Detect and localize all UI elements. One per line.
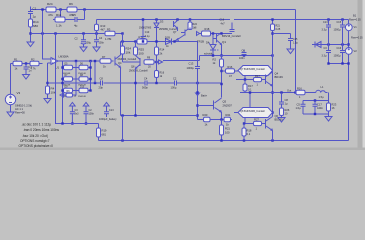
wire rail y19 mid (65, 19, 75, 21)
wire L1 corner down (328, 93, 330, 101)
capacitor C2 100u (175, 81, 177, 86)
svg-text:D4: D4 (206, 41, 210, 45)
voltage source V2 (345, 48, 352, 55)
capacitor C12 (279, 102, 284, 104)
wire R18a bottom (244, 91, 246, 93)
svg-text:OPTIONS numdgt=7: OPTIONS numdgt=7 (20, 139, 50, 143)
wire y83 bus (48, 82, 222, 84)
wire y119 rail (198, 119, 233, 121)
wire node row y33 (31, 33, 123, 35)
wire R21b top (221, 120, 223, 126)
diode D8 1N4148 (79, 77, 88, 81)
junction x281 y92 (280, 91, 282, 93)
junction x135 y115 (134, 114, 136, 116)
junction x348 y44 (347, 43, 349, 45)
svg-text:D3: D3 (160, 20, 164, 24)
resistor R27 1 (254, 121, 262, 125)
wire C7 lead (243, 55, 245, 56)
wire U4 input stub (234, 112, 238, 114)
svg-text:R16: R16 (228, 65, 233, 69)
wire y123 rail (56, 123, 99, 125)
wire grid row 1 (63, 67, 91, 69)
junction x342 y63 (341, 62, 343, 64)
junction x26 y63 (25, 62, 27, 64)
svg-text:V3: V3 (17, 91, 21, 95)
wire C6 to gnd (83, 44, 85, 47)
wire x245 R18a top (244, 80, 246, 85)
wire R18b bottom (243, 136, 245, 141)
svg-text:Q8 BUF634B_Condell: Q8 BUF634B_Condell (240, 110, 265, 113)
junction x244 y55 (243, 54, 245, 56)
junction x342 y44 (341, 43, 343, 45)
svg-text:TR1B: TR1B (197, 40, 204, 44)
diode D4 schottky (209, 43, 219, 50)
transistor Q10 bal (175, 28, 191, 42)
svg-text:100n: 100n (239, 57, 245, 60)
resistor R16 47 (226, 69, 235, 73)
inductor L1 (316, 90, 326, 92)
svg-text:LM308A: LM308A (59, 55, 69, 59)
wire C14 bottom (328, 27, 330, 45)
svg-text:1k8: 1k8 (193, 27, 198, 30)
svg-text:1µ: 1µ (285, 102, 288, 106)
wire y55 row (200, 55, 273, 57)
wire R16b to bus (156, 78, 158, 84)
diode D11 left (315, 42, 321, 48)
wire grid col x90 (90, 61, 92, 91)
ground below C1 chain (27, 42, 34, 47)
svg-text:1000µ: 1000µ (187, 66, 195, 70)
wire y92 row (240, 92, 328, 94)
wire C4 stub (96, 34, 98, 40)
junction x244 y140 (243, 139, 245, 141)
resistor R30 (280, 108, 284, 116)
wire C15b top (290, 34, 292, 39)
svg-text:V2: V2 (354, 49, 358, 53)
resistor R24b 10k (121, 46, 125, 54)
svg-text:BDV16_Condell: BDV16_Condell (222, 34, 241, 38)
junction x76 y61 (75, 60, 77, 62)
diode D7 1N4148 (64, 77, 73, 81)
wire R21b bottom (221, 135, 223, 141)
resistor R19 681 (97, 128, 101, 137)
junction x62 y83 (61, 82, 63, 84)
wire C12 to R30 (281, 104, 283, 108)
junction x348 y63 (347, 62, 349, 64)
resistor R13 (95, 24, 99, 30)
resistor R16b (155, 71, 159, 78)
svg-text:4n7: 4n7 (221, 23, 226, 26)
svg-text:C13: C13 (189, 62, 194, 66)
svg-text:0.25: 0.25 (276, 28, 281, 31)
resistor R3 (105, 31, 115, 36)
ground below C1b (23, 75, 30, 80)
svg-text:R3: R3 (107, 27, 111, 31)
svg-text:R2: R2 (31, 58, 35, 62)
svg-text:BD140: BD140 (275, 118, 283, 122)
wire C15 bottom (342, 27, 344, 45)
wire Q1 collector (221, 33, 223, 34)
ground below C6 (80, 47, 87, 52)
svg-text:SINE(0 1 2.5k): SINE(0 1 2.5k) (15, 104, 32, 108)
resistor R25 100 (134, 47, 138, 55)
junction x60 on top rail (59, 8, 61, 10)
junction x97 y33 (95, 32, 97, 34)
wire top rail V+ y9 (31, 9, 296, 11)
wire load cap1 bottom (302, 106, 304, 114)
svg-text:Q5: Q5 (223, 100, 227, 104)
svg-text:U1: U1 (56, 66, 60, 70)
svg-text:C1: C1 (29, 65, 33, 69)
svg-text:R23: R23 (332, 103, 337, 107)
wire C13b bottom (106, 114, 108, 117)
junction x174 y41 (173, 40, 175, 42)
svg-text:BD139: BD139 (275, 75, 284, 79)
svg-text:C15: C15 (337, 21, 342, 24)
svg-text:1N5817WS: 1N5817WS (139, 27, 152, 30)
ground below C15b (287, 49, 294, 54)
wire C1 stub (30, 7, 32, 12)
wire x199 corner down (163, 56, 200, 61)
wire C15 top (342, 20, 344, 25)
svg-text:100µ: 100µ (86, 41, 92, 44)
junction x315 y114 (314, 113, 316, 115)
wire x295 long vertical (295, 10, 297, 93)
junction x135 y83 (134, 82, 136, 84)
net flag TR1B arrow (197, 32, 200, 36)
svg-text:R14: R14 (160, 48, 165, 52)
flipped ground FG0 (70, 102, 76, 106)
transistor Q6 (266, 117, 273, 131)
svg-text:100µ: 100µ (171, 86, 177, 90)
wire buffer2 bot pin (244, 118, 246, 124)
junction x122 y115 (121, 114, 123, 116)
svg-text:R24: R24 (47, 2, 53, 6)
svg-text:Batt+: Batt+ (201, 94, 208, 98)
junction x86 y123 (85, 122, 87, 124)
svg-text:R18: R18 (205, 27, 210, 31)
capacitor C6b series (230, 30, 235, 32)
svg-text:R16: R16 (297, 86, 302, 90)
wire bottom rail y140 (99, 140, 349, 142)
wire y71 row into buffer (222, 70, 239, 72)
junction x272 y110 (271, 111, 273, 113)
svg-text:440n: 440n (317, 106, 323, 110)
net flag rail (196, 93, 200, 96)
wire grid col x62 (62, 61, 64, 124)
capacitor C15b (288, 39, 293, 41)
wire load cap2 bottom (314, 106, 316, 114)
capacitor C11 load (301, 104, 306, 106)
junction x315 y100 (314, 99, 316, 101)
junction x156 y62 (155, 61, 157, 63)
svg-text:.ac dec 100 1 1 112µ: .ac dec 100 1 1 112µ (22, 123, 52, 127)
wire y115 row (121, 115, 198, 117)
flipped ground FG2 (104, 102, 110, 106)
resistor R2 (30, 61, 39, 66)
diode D1 (166, 39, 172, 45)
resistor R4 to ground (46, 86, 50, 94)
wire battery bottom rail y63 (329, 63, 349, 65)
junction x90 y61 (89, 60, 91, 62)
resistor R17 1 (254, 78, 262, 82)
resistor R21b 100 (220, 125, 224, 135)
capacitor C6 curved plate (81, 43, 86, 44)
ground below C4 (93, 47, 100, 52)
capacitor C16 (340, 51, 345, 53)
svg-text:R27: R27 (254, 118, 259, 122)
svg-text:3n3: 3n3 (75, 112, 80, 115)
svg-text:R11: R11 (56, 13, 62, 17)
wire x55 long vertical (56, 34, 63, 124)
wire buffer2 top pin (249, 93, 251, 108)
canvas background (0, 0, 365, 150)
svg-text:1µ: 1µ (33, 15, 37, 19)
svg-text:C1: C1 (33, 7, 37, 11)
junction x156 y83 (155, 82, 157, 84)
svg-text:D10: D10 (80, 86, 85, 88)
wire x42 vertical (43, 10, 52, 60)
wire D3 to R14b (156, 28, 158, 48)
wire C3 bottom (328, 53, 330, 64)
svg-text:R20: R20 (203, 113, 208, 117)
wire Q3 collector (120, 42, 122, 56)
svg-text:0.1: 0.1 (248, 88, 252, 92)
wire R17 to Q4 (262, 79, 266, 81)
junction x95 y61 (94, 60, 96, 62)
wire R24b to y62 (122, 54, 124, 62)
diode D10 1N4148 (79, 88, 88, 92)
svg-text:1.1k: 1.1k (56, 24, 62, 28)
wire Q10 collector (189, 28, 191, 30)
svg-text:Q4: Q4 (275, 72, 279, 76)
wire R13 bottom lead (96, 31, 98, 34)
wire grid row 3 (63, 90, 91, 92)
svg-text:Q7 BUF634B_Condell: Q7 BUF634B_Condell (240, 68, 265, 71)
junction x213 y55 (212, 54, 214, 56)
svg-text:1N4148: 1N4148 (78, 96, 86, 98)
wire x197 vertical upper (197, 42, 199, 67)
junction x328 y63 (327, 62, 329, 64)
capacitor C4 (94, 40, 99, 42)
wire C6b stub (231, 23, 233, 30)
svg-text:C17: C17 (317, 103, 322, 107)
junction x143 y19 (142, 18, 144, 20)
junction x122 y33b (121, 32, 123, 34)
junction x272 y55 (271, 54, 273, 56)
wire U1 minus input stub (48, 62, 52, 64)
resistor R15 4.7k (137, 39, 147, 44)
resistor R20 (204, 117, 211, 122)
svg-text:10k: 10k (126, 51, 131, 55)
resistor R2b series (271, 24, 275, 31)
svg-text:1.5µ: 1.5µ (293, 42, 298, 45)
svg-text:R17: R17 (248, 84, 253, 88)
resistor R1 1k (202, 31, 211, 36)
resistor R14 (29, 19, 33, 27)
svg-text:Rser=50: Rser=50 (15, 111, 25, 115)
wire rail y19 right (234, 19, 349, 21)
wire C4 to gnd (96, 42, 98, 47)
svg-text:47k: 47k (48, 13, 53, 17)
wire Q5 emitter to rail (221, 112, 223, 120)
ground load (325, 117, 332, 122)
junction x272 y33 (271, 32, 273, 34)
wire load cap1 top (302, 101, 304, 105)
junction x90 row 3 (89, 89, 91, 91)
wire y123b R27 row (244, 123, 254, 125)
junction x221 y140 (220, 139, 222, 141)
wire R14b to y62 (156, 55, 158, 71)
wire load gnd stub (328, 114, 330, 117)
wire C2b bottom (85, 114, 87, 124)
wire FG2 stem (106, 106, 108, 112)
wire second rail y19 left section (53, 19, 55, 21)
wire x60 drop to R11 (60, 10, 62, 18)
svg-text:Q4: Q4 (118, 61, 122, 65)
wire R23 bottom (328, 111, 330, 114)
capacitor C10 (141, 37, 146, 39)
wire Q11 emitter (177, 29, 179, 32)
svg-text:R21: R21 (226, 113, 231, 117)
wire x135 emitter drop (135, 69, 137, 116)
wire C6 stub (83, 34, 85, 40)
junction x62 row 1 (61, 66, 63, 68)
diode D6 1N4148 (79, 65, 88, 69)
wire R15b top (221, 56, 223, 60)
junction x156 y19 (155, 18, 157, 20)
capacitor C1b (24, 67, 29, 69)
svg-text:C5: C5 (297, 103, 301, 107)
junction x72 y123 (71, 122, 73, 124)
svg-text:2N2907: 2N2907 (223, 104, 233, 108)
wire C1b stub (25, 64, 27, 67)
wire y105 Q5 base (198, 105, 214, 107)
resistor R14b 2k (155, 47, 159, 55)
buffer U3 BUF634 outline (238, 66, 273, 76)
op-amp U1 LM308 (51, 58, 58, 65)
svg-text:3.3µ: 3.3µ (322, 55, 327, 58)
capacitor C15 (340, 25, 345, 27)
svg-text:4k7: 4k7 (101, 28, 106, 32)
svg-text:C2: C2 (173, 77, 177, 81)
svg-text:1n: 1n (29, 69, 32, 73)
junction x197 y105 (196, 104, 198, 106)
junction x62 row 2 (61, 78, 63, 80)
net flag left arrow (60, 93, 66, 97)
svg-text:100: 100 (139, 52, 144, 56)
capacitor C13 1000u series (195, 67, 200, 69)
junction x272 y19 (271, 18, 273, 20)
wire C16 top (342, 45, 344, 51)
transistor Q5 2N2907 (214, 98, 222, 112)
transistor Q1 BDV16 (213, 33, 222, 45)
wire C1b to gnd (25, 69, 27, 75)
diode D5 1N4148 (64, 65, 73, 69)
wire R26 to flag (154, 61, 157, 63)
svg-text:.tran 0 20ms 10ms 100ns: .tran 0 20ms 10ms 100ns (23, 128, 59, 132)
svg-text:C5: C5 (72, 13, 76, 17)
junction x42 on top rail (41, 8, 43, 10)
wire grid row 2 (63, 78, 91, 80)
ground below V3 (7, 112, 14, 117)
junction x177 y19 (176, 18, 178, 20)
svg-text:1000µ: 1000µ (334, 55, 342, 58)
svg-text:C16: C16 (220, 19, 225, 22)
capacitor C17 load (313, 104, 318, 106)
svg-text:Q6: Q6 (275, 114, 279, 118)
wire x135 y41-47 (135, 42, 137, 48)
svg-text:AC 1 1: AC 1 1 (15, 107, 23, 111)
junction x213 y33 (212, 32, 214, 34)
svg-text:Out: Out (287, 89, 291, 93)
svg-text:R2: R2 (213, 58, 217, 62)
wire x243 R18b (243, 124, 245, 129)
wire U1 output y61 (58, 60, 114, 62)
junction x90 row 1 (89, 66, 91, 68)
junction x122 y41 (121, 40, 123, 42)
resistor R23 16 (327, 103, 331, 111)
resistor R22 1 (296, 90, 305, 94)
wire Q11 collector (177, 20, 179, 21)
svg-text:OPTIONS plotwinsize=0: OPTIONS plotwinsize=0 (19, 144, 54, 148)
wire R13 top lead (96, 20, 98, 25)
svg-text:Rser=0.35: Rser=0.35 (351, 37, 363, 40)
wire y79 R17 row (236, 79, 254, 81)
junction x342 y19 (341, 18, 343, 20)
svg-text:C4: C4 (144, 77, 148, 81)
wire Q6 emitter (272, 131, 274, 141)
junction x156 y41 (155, 40, 157, 42)
resistor R11 (55, 17, 65, 22)
svg-text:R21: R21 (225, 127, 230, 131)
junction x244 y123 (243, 122, 245, 124)
svg-text:560p: 560p (142, 86, 148, 90)
svg-text:1000µ: 1000µ (334, 29, 342, 32)
svg-text:1.5µ: 1.5µ (319, 95, 325, 99)
resistor R18b 0.1 (242, 128, 246, 136)
junction x122 y140 (121, 139, 123, 141)
junction x197 y92 (196, 91, 198, 93)
junction x250 y92 (249, 91, 251, 93)
wire x47 feedback vertical (47, 63, 49, 86)
junction x143 y41 (142, 40, 144, 42)
wire buffer1 bottom pin (244, 76, 246, 80)
svg-text:4µ: 4µ (74, 24, 78, 28)
transistor Q11 mirror (174, 21, 178, 29)
junction x221 y71 (220, 70, 222, 72)
svg-text:1000µF_battery: 1000µF_battery (99, 118, 117, 121)
buffer U4 BUF634 lower outline (238, 108, 273, 118)
net flag arrow (159, 60, 163, 64)
capacitor C3b (70, 112, 75, 114)
wire R27 to Q6 (262, 123, 266, 125)
resistor R18a 0.1 (243, 84, 247, 91)
svg-text:.four 10k 20 =Out|: .four 10k 20 =Out| (22, 134, 48, 138)
junction x221 y84 (220, 83, 222, 85)
wire R23 top (328, 101, 330, 104)
svg-text:R6: R6 (69, 2, 73, 6)
junction x62 row 3 (61, 89, 63, 91)
capacitor C4b 560p (145, 81, 147, 86)
voltage source V1 (345, 24, 352, 31)
junction x30 y33 (29, 32, 31, 34)
resistor R24 (46, 7, 56, 12)
svg-text:100n: 100n (99, 41, 105, 44)
junction x42 y33 (41, 32, 43, 34)
junction x55 y33 (54, 32, 56, 34)
flipped ground FG1 (83, 102, 89, 106)
